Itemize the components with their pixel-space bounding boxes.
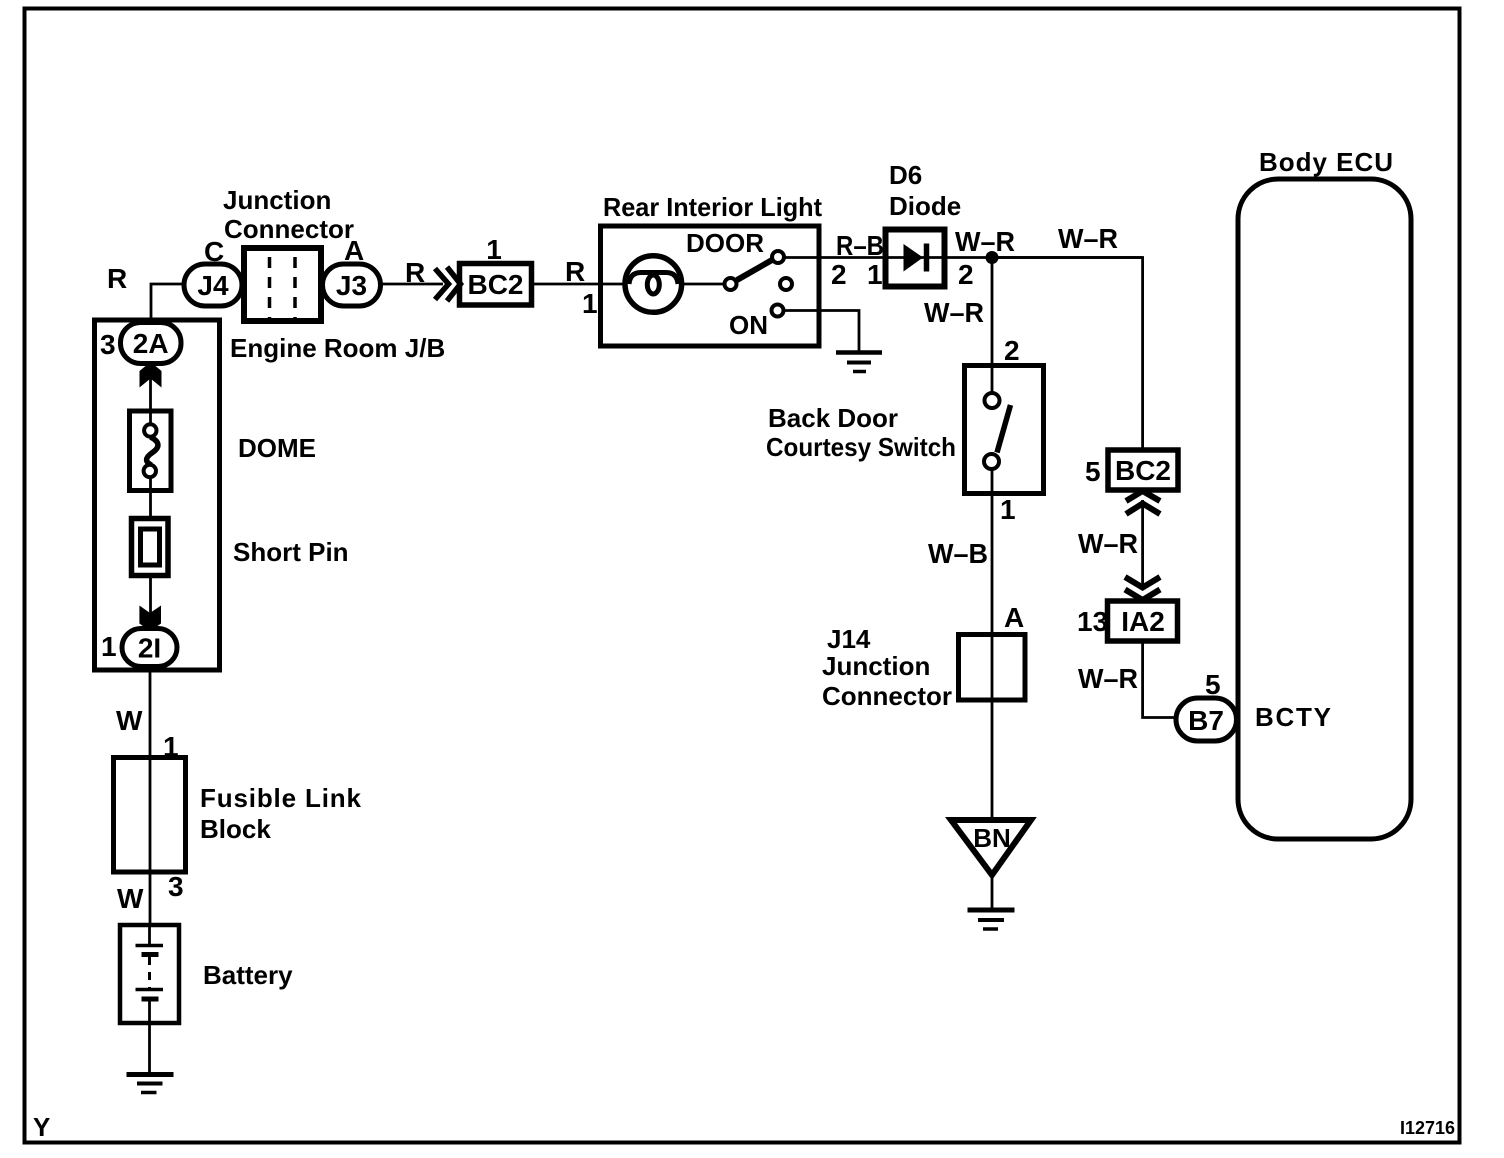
svg-text:W–R: W–R <box>1078 528 1138 559</box>
svg-text:W–R: W–R <box>1058 223 1118 254</box>
pin 2 of diode <box>958 259 974 290</box>
svg-text:Battery: Battery <box>203 960 293 990</box>
svg-text:J4: J4 <box>197 270 229 301</box>
svg-text:2: 2 <box>958 259 974 290</box>
male connector chevrons into BC2 <box>435 267 461 301</box>
label I12716 figure number <box>1400 1118 1455 1138</box>
svg-text:B7: B7 <box>1188 705 1224 736</box>
pin A of J14 <box>1004 602 1024 633</box>
connector IA2 <box>1108 601 1178 641</box>
back door courtesy switch <box>965 366 1044 495</box>
wire courtesy switch to J14 <box>991 494 994 635</box>
diode D6 <box>886 230 945 287</box>
middle contact <box>780 278 792 290</box>
ground below battery <box>127 1075 174 1093</box>
wire battery to ground <box>148 1023 151 1073</box>
ground below BN <box>968 910 1015 929</box>
svg-text:Back Door: Back Door <box>768 403 898 433</box>
light switch common contact <box>725 278 737 290</box>
svg-text:Courtesy Switch: Courtesy Switch <box>766 432 956 462</box>
svg-text:Fusible Link: Fusible Link <box>200 783 362 813</box>
label Battery <box>203 960 293 990</box>
svg-text:Short Pin: Short Pin <box>233 537 349 567</box>
svg-text:BC2: BC2 <box>467 269 523 300</box>
svg-text:1: 1 <box>582 288 598 319</box>
svg-text:3: 3 <box>100 329 116 360</box>
ground triangle BN <box>951 820 1031 875</box>
pin 13 of IA2 <box>1077 606 1108 637</box>
svg-text:W–R: W–R <box>955 226 1015 257</box>
rear interior light box <box>601 226 820 346</box>
svg-text:J14: J14 <box>827 624 871 654</box>
wire node right and down to BC2 <box>998 258 1143 451</box>
svg-text:2I: 2I <box>138 633 161 664</box>
svg-text:R–B: R–B <box>836 230 884 261</box>
pin 2 of courtesy switch <box>1004 335 1020 366</box>
svg-text:Connector: Connector <box>224 214 354 244</box>
svg-text:R: R <box>565 256 585 287</box>
wire 2A to DOME fuse <box>149 362 152 411</box>
node junction dot <box>986 251 999 264</box>
pin 2 of rear interior light <box>831 259 847 290</box>
label R-B wire color <box>836 230 884 261</box>
wire ON contact to ground <box>784 311 859 353</box>
label W-R wire color top right <box>1058 223 1118 254</box>
svg-text:W: W <box>116 705 143 736</box>
bulb lamp <box>625 256 682 313</box>
svg-text:J3: J3 <box>336 270 367 301</box>
svg-text:IA2: IA2 <box>1121 606 1165 637</box>
wire 2I to fusible link block <box>149 667 152 759</box>
connector B7 <box>1176 698 1237 741</box>
label Back Door Courtesy Switch <box>766 403 956 462</box>
label W-B wire color <box>928 538 988 569</box>
wire fusible link block to battery <box>149 872 152 925</box>
label ON <box>729 310 768 340</box>
svg-text:2A: 2A <box>133 328 169 359</box>
svg-text:Junction: Junction <box>822 651 930 681</box>
ground of light switch <box>836 353 882 372</box>
svg-text:W: W <box>117 883 144 914</box>
svg-text:2: 2 <box>1004 335 1020 366</box>
fusible link block <box>114 758 186 873</box>
short pin <box>132 519 169 576</box>
svg-text:Rear Interior Light: Rear Interior Light <box>603 192 822 222</box>
label W wire color lower <box>117 883 144 914</box>
male connector chevrons above IA2 <box>1125 577 1160 600</box>
wire node down to courtesy switch <box>991 258 994 367</box>
arrow down into 2I <box>139 606 161 632</box>
female connector chevrons below BC2 <box>1126 491 1160 514</box>
junction connector J14 <box>959 635 1026 701</box>
wire BC2 to Rear Interior Light <box>532 283 601 286</box>
svg-text:2: 2 <box>831 259 847 290</box>
pin 1 of rear interior light <box>582 288 598 319</box>
svg-text:Engine Room J/B: Engine Room J/B <box>230 333 445 363</box>
DOOR contact <box>772 251 784 263</box>
wire into bulb <box>601 283 625 286</box>
label DOME <box>238 433 316 463</box>
svg-text:1: 1 <box>486 234 502 265</box>
svg-text:Junction: Junction <box>223 185 331 215</box>
svg-text:DOME: DOME <box>238 433 316 463</box>
svg-text:Y: Y <box>33 1112 50 1142</box>
ON contact <box>772 305 784 317</box>
svg-text:I12716: I12716 <box>1400 1118 1455 1138</box>
svg-text:Diode: Diode <box>889 191 961 221</box>
connector 2I <box>122 629 177 667</box>
pin 1 of courtesy switch <box>1000 494 1016 525</box>
svg-text:5: 5 <box>1085 456 1101 487</box>
wire DOOR contact through diode to node <box>784 256 1143 259</box>
label Short Pin <box>233 537 349 567</box>
svg-text:W–R: W–R <box>924 297 984 328</box>
label W-R wire color after diode <box>955 226 1015 257</box>
svg-text:R: R <box>107 263 127 294</box>
label W wire color <box>116 705 143 736</box>
body ECU outline <box>1238 179 1411 839</box>
svg-text:ON: ON <box>729 310 768 340</box>
svg-text:D6: D6 <box>889 160 922 190</box>
wire IA2 to B7 <box>1143 641 1176 718</box>
label Rear Interior Light <box>603 192 822 222</box>
svg-text:R: R <box>405 257 425 288</box>
wire short pin to 2I <box>149 576 152 628</box>
svg-text:BC2: BC2 <box>1115 455 1171 486</box>
junction connector block <box>244 248 321 321</box>
svg-text:1: 1 <box>867 259 883 290</box>
battery <box>120 925 179 1023</box>
label Body ECU <box>1259 147 1393 177</box>
pin 1 above BC2 <box>486 234 502 265</box>
wire J14 to BN ground <box>991 635 994 820</box>
pin 1 of engine room J/B <box>101 631 117 662</box>
svg-text:A: A <box>344 235 364 266</box>
label D6 Diode <box>889 160 961 221</box>
svg-text:Connector: Connector <box>822 681 952 711</box>
svg-text:1: 1 <box>1000 494 1016 525</box>
pin A of J3 <box>344 235 364 266</box>
label W-R on vertical wire <box>924 297 984 328</box>
svg-text:5: 5 <box>1205 669 1221 700</box>
pin 3 of fusible link block <box>168 871 184 902</box>
label Engine Room J/B <box>230 333 445 363</box>
svg-text:BCTY: BCTY <box>1255 702 1331 732</box>
label Junction Connector <box>223 185 354 244</box>
engine room J/B box <box>95 320 220 670</box>
label BCTY <box>1255 702 1331 732</box>
svg-text:DOOR: DOOR <box>686 228 764 258</box>
pin 1 of fusible link block <box>163 731 179 762</box>
label J14 Junction Connector <box>822 624 952 711</box>
wire J3 to BC2 <box>381 283 444 286</box>
pin 5 of BC2 <box>1085 456 1101 487</box>
svg-text:Block: Block <box>200 814 271 844</box>
wire bulb to switch common <box>682 283 724 286</box>
pin C of J4 <box>204 236 224 267</box>
label R wire color left <box>107 263 127 294</box>
svg-text:BN: BN <box>973 823 1011 853</box>
connector J3 <box>323 264 381 306</box>
svg-text:Body ECU: Body ECU <box>1259 147 1393 177</box>
wire BN to ground <box>991 875 994 908</box>
wire BC2 to IA2 <box>1141 500 1144 588</box>
label Fusible Link Block <box>200 783 362 844</box>
light switch blade to DOOR <box>737 260 772 280</box>
label W-R wire color to B7 <box>1078 663 1138 694</box>
label DOOR <box>686 228 764 258</box>
connector 2A <box>121 323 182 364</box>
pin 5 of B7 <box>1205 669 1221 700</box>
svg-text:1: 1 <box>101 631 117 662</box>
svg-text:W–B: W–B <box>928 538 988 569</box>
connector J4 <box>184 264 242 306</box>
label R wire color <box>565 256 585 287</box>
svg-text:W–R: W–R <box>1078 663 1138 694</box>
label R wire color <box>405 257 425 288</box>
svg-text:A: A <box>1004 602 1024 633</box>
pin 3 of engine room J/B <box>100 329 116 360</box>
label Y page marker <box>33 1112 50 1142</box>
wire R from J/B up to J4 <box>151 284 184 327</box>
svg-text:3: 3 <box>168 871 184 902</box>
arrow up into 2A <box>140 363 162 388</box>
connector BC2 <box>460 264 532 306</box>
pin 1 of diode <box>867 259 883 290</box>
label W-R wire color right column <box>1078 528 1138 559</box>
svg-text:13: 13 <box>1077 606 1108 637</box>
fuse DOME <box>130 411 172 518</box>
connector BC2 body ecu <box>1108 450 1178 490</box>
